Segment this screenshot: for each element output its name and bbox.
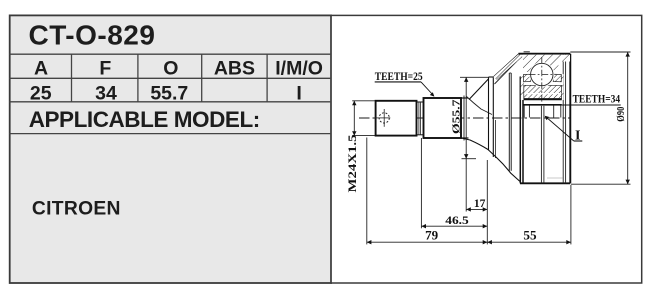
stem circle vertical crosshair [383,109,385,127]
boot seat ridge vertical 3 [494,120,496,158]
svg-text:55.7: 55.7 [150,82,188,104]
bell bottom edge [520,182,570,184]
boot inner profile top [467,97,493,115]
outer race wall hatched band [523,55,570,72]
svg-text:APPLICABLE MODEL:: APPLICABLE MODEL: [29,107,260,132]
svg-text:F: F [99,57,111,79]
mouth wall hatched strip right [561,74,563,100]
table row line under header [9,77,331,79]
dimension M24X1.5 line [352,101,356,136]
faint back groove line [547,177,563,179]
table column line 3 [201,54,203,102]
bell back face [569,54,571,184]
dimension 46.5 extension left [420,138,422,228]
mouth rim top edge [509,72,511,74]
svg-text:17: 17 [474,198,486,210]
M24 extension line top [352,100,375,102]
svg-text:46.5: 46.5 [445,215,469,227]
dimension d90 line [626,52,630,184]
dimension 55 extension right [570,185,572,244]
lower external step line 1 [540,106,542,184]
table row line under values [9,101,331,103]
bore edge vertical pair right [553,106,555,118]
table column line 1 [71,54,73,102]
svg-text:ABS: ABS [214,57,255,79]
neck groove bottom edge [417,134,424,136]
svg-text:79: 79 [425,229,438,243]
shared extension line boot seat [486,160,488,244]
svg-text:I/M/O: I/M/O [275,57,323,79]
lower external step line 2 [543,106,545,184]
race spline surface line [524,104,562,106]
threaded stem body [376,101,417,136]
dimension d55.7 extension bottom [462,158,477,160]
M24 extension line bottom [352,135,375,137]
svg-text:O: O [163,57,178,79]
cage block right [553,74,561,82]
svg-text:TEETH=25: TEETH=25 [375,69,423,83]
main axis centerline [359,117,571,119]
cage block left [524,74,531,82]
dimension d90 extension top [570,51,630,53]
TEETH=25 leader arrow [421,82,434,97]
dimension d90 extension bottom [571,183,631,185]
svg-text:34: 34 [95,82,117,104]
bell top step [524,51,530,53]
dimension 17 line [466,207,487,211]
dimension 79 extension left [366,138,368,245]
boot seat ridge vertical 2 [492,77,494,157]
svg-text:Ø90: Ø90 [616,107,627,122]
neck groove top edge [417,101,424,103]
table column line 2 [137,54,139,102]
inner race lower edge [524,98,562,100]
bell back step line 2 [565,54,567,184]
svg-text:Ø55.7: Ø55.7 [450,99,462,134]
shaft groove line 1 [463,96,465,141]
ball horizontal centerline [529,74,556,76]
ball [531,63,553,85]
inner race hatched band [524,85,562,98]
svg-text:I: I [296,82,301,104]
TEETH=25 underline [375,81,421,83]
race band seam [524,93,561,95]
spline cylinder body [424,98,462,138]
table row line under title [9,53,331,55]
mouth wall hatched strip left [521,77,524,100]
bell top edge [519,53,571,55]
neck groove vertical 2 [420,102,422,135]
ball pocket blank [529,62,554,87]
mouth rim vertical 2 [510,73,512,171]
boot seat ridge vertical 1 [488,77,490,151]
mouth rim vertical 1 [508,73,510,171]
bell mouth cone hatched wedge [493,54,522,80]
svg-text:55: 55 [523,229,536,243]
bell mouth cone line 1 [493,54,519,77]
dimension 79-55 line [367,240,571,244]
table row line under applicable model [9,133,331,135]
boot seat ridge top edge [489,76,494,78]
left data table panel [10,15,331,283]
bell mouth face vertical 1 [519,77,521,184]
ball vertical centerline [541,57,543,103]
neck groove vertical 1 [418,102,420,135]
label I leader arrow [545,116,574,141]
bell mouth face vertical 2 [522,77,524,184]
svg-text:25: 25 [30,82,52,104]
dimension d55.7 line and 17 extension [464,77,468,211]
bell mouth cone line 3 [495,62,517,85]
svg-text:A: A [34,57,48,79]
bore edge vertical pair left [523,106,525,118]
dimension 46.5 line [421,224,487,228]
svg-text:CT-O-829: CT-O-829 [29,20,156,51]
stem circle horizontal crosshair [375,117,391,119]
boot lower silhouette [461,138,520,182]
TEETH=34 underline leader [562,104,621,106]
cone top line [469,79,488,100]
svg-text:M24X1.5: M24X1.5 [345,135,359,193]
dimension d55.7 extension top [460,76,488,78]
shaft land bottom edge [461,137,469,139]
right drawing panel [331,15,642,283]
bell mouth cone line 2 [497,57,523,80]
svg-text:TEETH=34: TEETH=34 [573,92,621,106]
shaft land top edge [461,97,469,99]
stem thread circle [379,113,389,123]
svg-text:CITROEN: CITROEN [32,199,121,220]
table column line 4 [266,54,268,102]
label I underline [574,140,583,142]
bell back step line 1 [562,54,564,184]
